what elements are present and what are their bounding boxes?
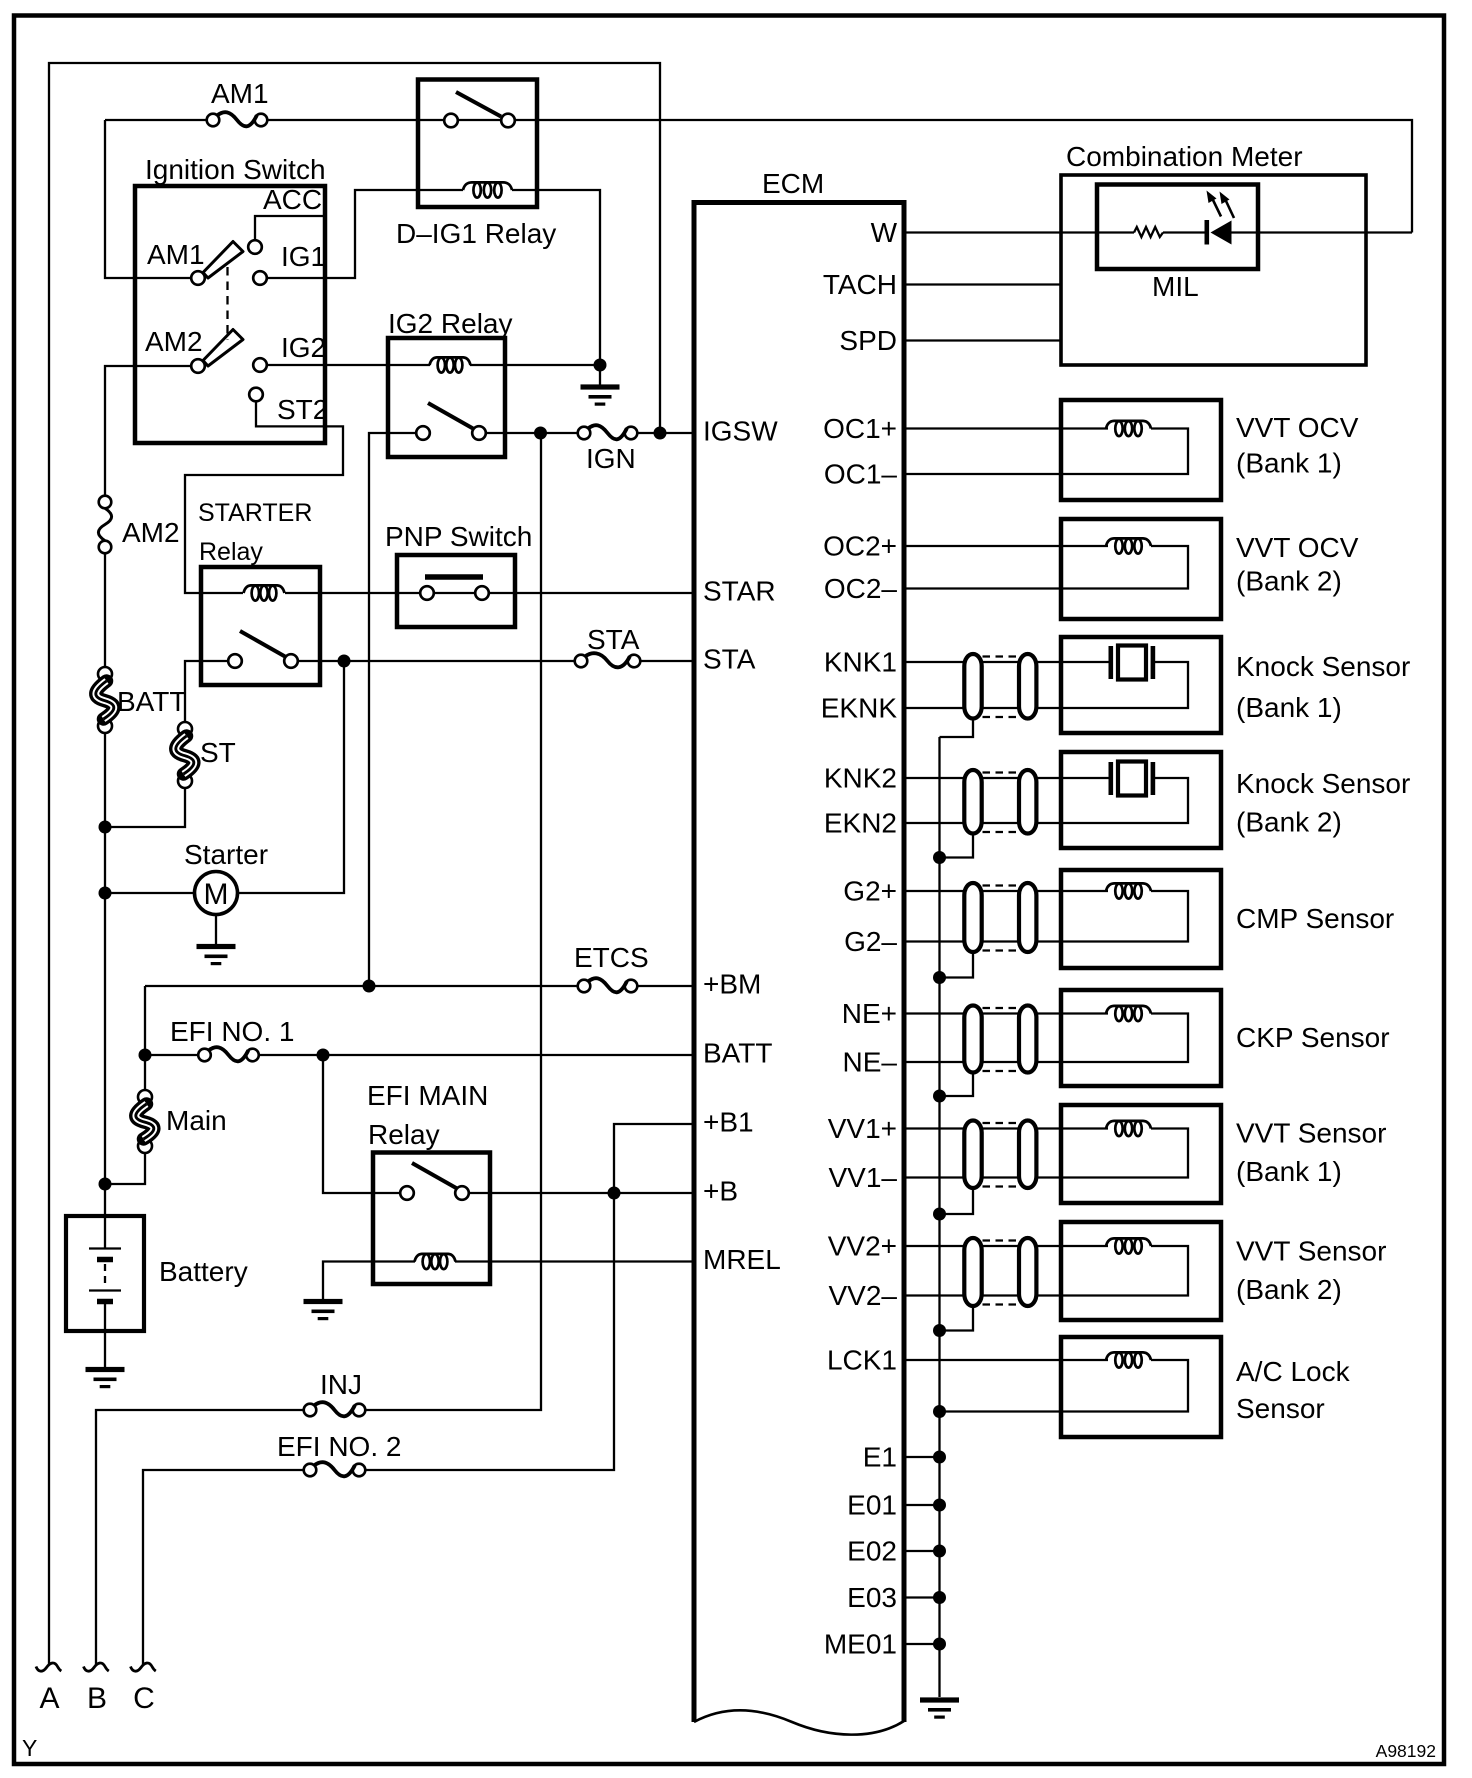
wire ECM ME01 to ground bus bbox=[904, 1643, 940, 1645]
relay D-IG1 blade bbox=[456, 92, 501, 117]
svg-text:PNP Switch: PNP Switch bbox=[385, 521, 532, 552]
wire CMP Sensor return line bbox=[904, 891, 1188, 942]
connector C end squiggle bbox=[131, 1663, 156, 1671]
wire VVT1 shield drain bbox=[940, 1188, 974, 1214]
wire VVT Sensor (Bank 1) return line bbox=[904, 1129, 1188, 1178]
VVT OCV (Bank 1) box bbox=[1061, 400, 1221, 500]
svg-text:IGSW: IGSW bbox=[703, 416, 778, 447]
wire ECM E01 to ground bus bbox=[904, 1504, 940, 1506]
ignition switch IG1 contact bbox=[253, 241, 326, 285]
wire D-IG1 coil to ground junction bbox=[512, 190, 600, 365]
VVT OCV (Bank 2) box bbox=[1061, 519, 1221, 619]
wire Main link feed bbox=[144, 1055, 146, 1091]
ignition switch AM2 contact bbox=[145, 326, 205, 373]
svg-text:(Bank 1): (Bank 1) bbox=[1236, 1156, 1342, 1187]
node BATT line relay junction bbox=[317, 1049, 330, 1062]
wire EFI MAIN relay contact to ECM +B bbox=[469, 1192, 694, 1194]
svg-text:(Bank 1): (Bank 1) bbox=[1236, 448, 1342, 479]
ECM box bbox=[694, 203, 904, 1723]
connector A end squiggle bbox=[36, 1663, 61, 1671]
svg-text:VVT Sensor: VVT Sensor bbox=[1236, 1236, 1386, 1267]
wire Knock Sensor (Bank 2) + line bbox=[904, 777, 1110, 779]
wire VVT OCV (Bank 2) return line bbox=[904, 546, 1188, 589]
wire BATT line left bbox=[145, 1054, 198, 1056]
svg-text:AM1: AM1 bbox=[147, 239, 205, 270]
svg-text:IG2: IG2 bbox=[281, 332, 326, 363]
VVT Sensor (Bank 2) coil bbox=[1106, 1238, 1151, 1246]
svg-text:Main: Main bbox=[166, 1105, 227, 1136]
wire IGN fuse to ECM IGSW bbox=[637, 432, 694, 434]
node +BM junction bbox=[363, 980, 376, 993]
svg-text:OC2–: OC2– bbox=[824, 573, 898, 604]
svg-text:VV2+: VV2+ bbox=[828, 1231, 897, 1262]
VVT OCV (Bank 2) coil bbox=[1106, 538, 1151, 546]
LED MIL emission arrow 1 bbox=[1207, 191, 1222, 217]
fusible link ST bbox=[176, 722, 236, 788]
relay IG2 contact left bbox=[416, 426, 430, 440]
wire shield ground bus bbox=[938, 737, 940, 1697]
wire starter relay contact to STA fuse bbox=[298, 660, 575, 662]
VVT Sensor (Bank 1) coil bbox=[1106, 1121, 1151, 1129]
relay IG2 blade bbox=[428, 403, 473, 429]
node bus junction CMP shield bbox=[933, 971, 946, 984]
wire IG2 relay coil to ground junction bbox=[470, 364, 600, 366]
svg-text:STAR: STAR bbox=[703, 576, 776, 607]
svg-text:Relay: Relay bbox=[368, 1119, 440, 1150]
ignition switch box bbox=[135, 186, 325, 443]
wire starter relay coil to PNP switch bbox=[285, 592, 420, 594]
svg-text:G2–: G2– bbox=[844, 926, 897, 957]
svg-text:AM1: AM1 bbox=[211, 78, 269, 109]
resistor (MIL series) bbox=[1134, 227, 1163, 237]
node bus junction VVT1 shield bbox=[933, 1208, 946, 1221]
wire starter motor to STA junction bbox=[238, 661, 345, 893]
wire ACC stem bbox=[255, 216, 325, 240]
relay STARTER blade bbox=[240, 631, 285, 657]
svg-text:Ignition Switch: Ignition Switch bbox=[145, 154, 326, 185]
wire AM1 fuse feed left bbox=[105, 119, 207, 121]
svg-text:KNK2: KNK2 bbox=[824, 763, 897, 794]
node bus junction E1 bbox=[933, 1451, 946, 1464]
node bus junction ME01 bbox=[933, 1638, 946, 1651]
starter motor M bbox=[184, 839, 268, 915]
wire AM2 branch from ignition switch bbox=[105, 366, 191, 496]
node bus junction E01 bbox=[933, 1499, 946, 1512]
node bus junction E03 bbox=[933, 1591, 946, 1604]
shielded twisted pair (CMP Sensor) bbox=[964, 883, 981, 952]
svg-text:E1: E1 bbox=[863, 1442, 897, 1473]
wire ECM E02 to ground bus bbox=[904, 1550, 940, 1552]
PNP switch contact left bbox=[420, 586, 434, 600]
svg-text:E03: E03 bbox=[847, 1582, 897, 1613]
node bus junction knock2 shield bbox=[933, 851, 946, 864]
wire PNP switch internal (closed contact) bbox=[434, 592, 476, 594]
svg-text:KNK1: KNK1 bbox=[824, 647, 897, 678]
svg-text:BATT: BATT bbox=[703, 1038, 772, 1069]
svg-text:VV2–: VV2– bbox=[829, 1280, 898, 1311]
ignition switch rotor link (dashed) bbox=[226, 267, 228, 340]
battery box bbox=[66, 1216, 144, 1331]
wire INJ riser from IGN line bbox=[365, 433, 541, 1410]
wire EFI MAIN coil to ground bbox=[323, 1262, 415, 1300]
LED MIL emission arrow 2 bbox=[1220, 192, 1235, 219]
node bus junction VVT2 shield bbox=[933, 1324, 946, 1337]
wire ECM E1 to ground bus bbox=[904, 1456, 940, 1458]
node bus junction CKP shield bbox=[933, 1090, 946, 1103]
relay STARTER box bbox=[201, 567, 320, 685]
svg-text:M: M bbox=[204, 878, 229, 911]
fuse STA bbox=[575, 624, 641, 667]
Knock Sensor (Bank 2) box bbox=[1061, 752, 1221, 848]
svg-text:IG1: IG1 bbox=[281, 241, 326, 272]
shielded twisted pair (Knock Sensor (Bank 1)) bbox=[964, 654, 981, 719]
svg-text:EFI NO. 1: EFI NO. 1 bbox=[170, 1016, 294, 1047]
svg-text:A: A bbox=[39, 1682, 59, 1715]
node battery top junction bbox=[99, 1178, 112, 1191]
wire Knock Sensor (Bank 1) + line bbox=[904, 661, 1110, 663]
svg-text:INJ: INJ bbox=[320, 1369, 362, 1400]
relay EFI MAIN contact right bbox=[455, 1186, 469, 1200]
wire Main link to battery bbox=[105, 1152, 145, 1184]
fusible link Main bbox=[136, 1090, 227, 1153]
node bus junction A/C return bbox=[933, 1405, 946, 1418]
relay STARTER contact left bbox=[228, 654, 242, 668]
svg-text:C: C bbox=[133, 1682, 155, 1715]
LED MIL cathode bar bbox=[1205, 220, 1210, 245]
wire VVT2 shield drain bbox=[940, 1306, 974, 1331]
svg-text:Battery: Battery bbox=[159, 1256, 248, 1287]
ignition switch AM2 rotor blade bbox=[203, 330, 243, 367]
wire A/C lock sensor LCK1 line bbox=[904, 1359, 1108, 1361]
svg-text:OC1+: OC1+ bbox=[823, 413, 897, 444]
svg-text:E01: E01 bbox=[847, 1490, 897, 1521]
wire VVT Sensor (Bank 2) return line bbox=[904, 1246, 1188, 1296]
svg-text:CMP Sensor: CMP Sensor bbox=[1236, 903, 1394, 934]
svg-text:VV1+: VV1+ bbox=[828, 1113, 897, 1144]
CKP Sensor box bbox=[1061, 990, 1221, 1086]
wire +BM rail bbox=[145, 985, 578, 987]
wire AM1 branch to ignition switch bbox=[105, 120, 191, 278]
wire A battery feed (top rail) bbox=[49, 63, 660, 1665]
CMP Sensor coil bbox=[1106, 883, 1151, 891]
wire ETCS fuse to ECM +BM bbox=[637, 985, 694, 987]
wire CKP Sensor + line bbox=[904, 1012, 1108, 1014]
relay D-IG1 contact left bbox=[444, 114, 458, 128]
wire EFI NO.2 fuse to wire C bbox=[143, 1470, 304, 1665]
ECM torn bottom edge bbox=[694, 1710, 904, 1734]
wire CKP Sensor return line bbox=[904, 1014, 1188, 1063]
svg-text:STARTER: STARTER bbox=[198, 499, 312, 527]
relay EFI MAIN box bbox=[373, 1153, 490, 1285]
node IGN junction right bbox=[654, 427, 667, 440]
svg-text:A98192: A98192 bbox=[1376, 1741, 1436, 1761]
wire IG2 relay contact to IGN fuse bbox=[486, 432, 578, 434]
combination meter box bbox=[1061, 175, 1366, 365]
svg-text:VVT OCV: VVT OCV bbox=[1236, 532, 1359, 563]
relay STARTER contact right bbox=[284, 654, 298, 668]
fuse ETCS bbox=[574, 942, 649, 992]
svg-text:CKP Sensor: CKP Sensor bbox=[1236, 1022, 1390, 1053]
node battery rail / starter junction bbox=[99, 887, 112, 900]
MIL lamp box bbox=[1097, 185, 1258, 270]
wire CKP shield drain bbox=[940, 1073, 974, 1097]
wire VVT OCV (Bank 2) + line bbox=[904, 545, 1108, 547]
wire VVT OCV (Bank 1) + line bbox=[904, 427, 1108, 429]
wire SPD line bbox=[904, 339, 1061, 341]
wire Knock Sensor (Bank 1) return line bbox=[904, 662, 1188, 708]
svg-text:EKNK: EKNK bbox=[821, 693, 898, 724]
wire INJ fuse to wire B bbox=[96, 1410, 304, 1665]
svg-text:BATT: BATT bbox=[117, 686, 186, 717]
wire ST2 to starter relay coil bbox=[185, 402, 343, 594]
ignition switch AM1 rotor blade bbox=[203, 242, 243, 279]
svg-text:B: B bbox=[87, 1682, 107, 1715]
wire W line bbox=[904, 231, 1412, 233]
Knock Sensor (Bank 2) piezo element bbox=[1109, 762, 1156, 796]
node battery rail / ST junction bbox=[99, 821, 112, 834]
svg-text:A/C Lock: A/C Lock bbox=[1236, 1356, 1351, 1387]
svg-text:ECM: ECM bbox=[762, 168, 824, 199]
PNP switch contact right bbox=[475, 586, 489, 600]
ground (relay coils) bbox=[581, 365, 620, 406]
svg-text:VV1–: VV1– bbox=[829, 1162, 898, 1193]
svg-text:EKN2: EKN2 bbox=[824, 808, 897, 839]
node +B junction bbox=[608, 1187, 621, 1200]
node IG2 coil ground junction bbox=[594, 359, 607, 372]
svg-text:ME01: ME01 bbox=[824, 1629, 897, 1660]
svg-text:Sensor: Sensor bbox=[1236, 1393, 1325, 1424]
wire IG2 relay contact left to +BM rail bbox=[369, 433, 416, 986]
wire VVT Sensor (Bank 1) + line bbox=[904, 1127, 1108, 1129]
shielded twisted pair (CKP Sensor) bbox=[964, 1006, 981, 1073]
battery cell plates bbox=[89, 1249, 121, 1302]
wire TACH line bbox=[904, 283, 1061, 285]
wire EFI MAIN coil to ECM MREL bbox=[455, 1260, 694, 1262]
svg-text:TACH: TACH bbox=[823, 269, 897, 300]
ignition switch AM1 contact bbox=[147, 239, 205, 285]
svg-text:(Bank 2): (Bank 2) bbox=[1236, 807, 1342, 838]
ground (battery) bbox=[86, 1367, 125, 1372]
shielded twisted pair (Knock Sensor (Bank 2)) bbox=[964, 770, 981, 834]
node IGN junction left bbox=[534, 427, 547, 440]
wire CMP shield drain bbox=[940, 952, 974, 978]
shielded twisted pair (VVT Sensor (Bank 2)) bbox=[964, 1238, 981, 1306]
wire Knock Sensor (Bank 2) return line bbox=[904, 778, 1188, 823]
PNP switch bar bbox=[425, 574, 483, 580]
wire VVT Sensor (Bank 2) + line bbox=[904, 1245, 1108, 1247]
svg-text:+B1: +B1 bbox=[703, 1107, 754, 1138]
svg-text:Knock Sensor: Knock Sensor bbox=[1236, 768, 1410, 799]
wire ST fuse to battery rail bbox=[105, 787, 185, 827]
fuse INJ bbox=[304, 1369, 366, 1416]
ignition switch IG2 contact bbox=[253, 332, 326, 372]
node BATT line left junction bbox=[139, 1049, 152, 1062]
svg-text:D–IG1 Relay: D–IG1 Relay bbox=[396, 218, 556, 249]
svg-text:+BM: +BM bbox=[703, 969, 761, 1000]
svg-text:NE–: NE– bbox=[843, 1047, 898, 1078]
svg-text:E02: E02 bbox=[847, 1536, 897, 1567]
svg-text:OC1–: OC1– bbox=[824, 459, 898, 490]
wire PNP switch to ECM STAR bbox=[489, 592, 694, 594]
wire STA fuse to ECM STA bbox=[640, 660, 694, 662]
svg-text:(Bank 2): (Bank 2) bbox=[1236, 1274, 1342, 1305]
wire knock2 shield drain bbox=[940, 834, 974, 858]
svg-text:AM2: AM2 bbox=[122, 517, 180, 548]
svg-text:Starter: Starter bbox=[184, 839, 268, 870]
svg-text:IG2 Relay: IG2 Relay bbox=[388, 308, 513, 339]
Knock Sensor (Bank 1) piezo element bbox=[1109, 646, 1156, 680]
fuse EFI NO. 2 bbox=[277, 1431, 401, 1476]
ground (starter motor) bbox=[197, 915, 236, 966]
svg-text:Knock Sensor: Knock Sensor bbox=[1236, 651, 1410, 682]
wire BATT link to battery rail bbox=[104, 732, 106, 1249]
ignition switch ST2 contact bbox=[249, 388, 328, 425]
fuse EFI NO. 1 bbox=[170, 1016, 294, 1061]
svg-text:AM2: AM2 bbox=[145, 326, 203, 357]
svg-text:SPD: SPD bbox=[839, 325, 897, 356]
wire ST fuse branch bbox=[185, 661, 228, 723]
shielded twisted pair (VVT Sensor (Bank 1)) bbox=[964, 1121, 981, 1189]
wire AM1 fuse to D-IG1 relay and W rail bbox=[267, 120, 1412, 233]
LED MIL triangle bbox=[1211, 221, 1232, 245]
svg-text:IGN: IGN bbox=[586, 443, 636, 474]
VVT Sensor (Bank 1) box bbox=[1061, 1105, 1221, 1203]
ignition switch ACC contact bbox=[248, 184, 322, 254]
svg-text:MIL: MIL bbox=[1152, 271, 1199, 302]
relay IG2 contact right bbox=[472, 426, 486, 440]
svg-text:Y: Y bbox=[22, 1735, 37, 1761]
svg-text:ACC: ACC bbox=[263, 184, 322, 215]
wire IG2 to IG2 relay coil bbox=[267, 364, 430, 366]
svg-text:LCK1: LCK1 bbox=[827, 1345, 897, 1376]
PNP switch box bbox=[397, 555, 515, 627]
A/C lock sensor coil bbox=[1106, 1352, 1151, 1360]
Knock Sensor (Bank 1) box bbox=[1061, 637, 1221, 733]
relay IG2 box bbox=[388, 338, 505, 457]
svg-text:G2+: G2+ bbox=[843, 876, 897, 907]
relay IG2 coil bbox=[430, 357, 471, 365]
wire knock1 shield drain bbox=[940, 719, 974, 738]
svg-text:(Bank 1): (Bank 1) bbox=[1236, 692, 1342, 723]
svg-text:VVT OCV: VVT OCV bbox=[1236, 412, 1359, 443]
wire VVT OCV (Bank 1) return line bbox=[904, 429, 1188, 475]
svg-text:W: W bbox=[871, 217, 898, 248]
CMP Sensor box bbox=[1061, 870, 1221, 968]
CKP Sensor coil bbox=[1106, 1006, 1151, 1014]
wire AM2 fuse to BATT link bbox=[104, 553, 106, 667]
VVT Sensor (Bank 2) box bbox=[1061, 1222, 1221, 1320]
wire battery to ground bbox=[104, 1302, 106, 1368]
relay D-IG1 contact right bbox=[501, 114, 515, 128]
svg-text:(Bank 2): (Bank 2) bbox=[1236, 566, 1342, 597]
svg-text:ETCS: ETCS bbox=[574, 942, 649, 973]
relay D-IG1 box bbox=[418, 80, 537, 208]
svg-text:+B: +B bbox=[703, 1176, 738, 1207]
svg-text:OC2+: OC2+ bbox=[823, 531, 897, 562]
wire EFI MAIN relay feed from BATT line bbox=[323, 1055, 400, 1193]
wire IG1 to D-IG1 relay coil bbox=[267, 190, 463, 278]
svg-text:EFI NO. 2: EFI NO. 2 bbox=[277, 1431, 401, 1462]
ground (EFI MAIN relay coil) bbox=[304, 1299, 343, 1304]
relay EFI MAIN coil bbox=[415, 1254, 456, 1262]
node bus junction E02 bbox=[933, 1545, 946, 1558]
fuse IGN bbox=[578, 425, 638, 474]
wire A/C lock sensor return bbox=[940, 1360, 1189, 1412]
relay STARTER coil bbox=[244, 585, 285, 593]
relay EFI MAIN contact left bbox=[400, 1186, 414, 1200]
wire ECM E03 to ground bus bbox=[904, 1596, 940, 1598]
svg-text:STA: STA bbox=[703, 644, 756, 675]
svg-text:NE+: NE+ bbox=[842, 998, 897, 1029]
wire EFI NO.1 fuse to ECM BATT bbox=[259, 1054, 694, 1056]
A/C Lock Sensor box bbox=[1061, 1337, 1221, 1437]
svg-text:ST2: ST2 bbox=[277, 394, 328, 425]
wire +B1 riser bbox=[365, 1124, 694, 1470]
svg-text:VVT Sensor: VVT Sensor bbox=[1236, 1118, 1386, 1149]
svg-text:MREL: MREL bbox=[703, 1244, 781, 1275]
wire CMP Sensor + line bbox=[904, 890, 1108, 892]
fuse AM2 bbox=[98, 496, 179, 554]
svg-text:EFI MAIN: EFI MAIN bbox=[367, 1080, 488, 1111]
fuse AM1 bbox=[207, 78, 269, 126]
fusible link BATT bbox=[96, 667, 187, 733]
svg-text:STA: STA bbox=[587, 624, 640, 655]
svg-text:ST: ST bbox=[200, 737, 236, 768]
connector B end squiggle bbox=[84, 1663, 109, 1671]
svg-text:Combination Meter: Combination Meter bbox=[1066, 141, 1303, 172]
ground (ECM shield bus) bbox=[920, 1697, 959, 1702]
relay EFI MAIN blade bbox=[412, 1163, 457, 1189]
relay D-IG1 coil bbox=[463, 182, 512, 190]
svg-text:Relay: Relay bbox=[199, 538, 263, 566]
node STA junction bbox=[338, 655, 351, 668]
VVT OCV (Bank 1) coil bbox=[1106, 421, 1151, 429]
wire +BM rail drop to BATT line bbox=[144, 986, 146, 1055]
wire starter motor feed bbox=[105, 892, 195, 894]
